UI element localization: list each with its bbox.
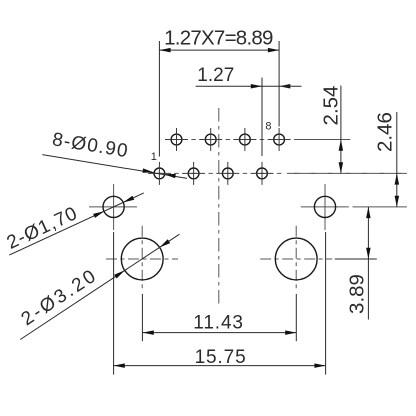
centerline small hole left vertical bbox=[113, 184, 115, 230]
centerline big hole right horizontal bbox=[260, 258, 332, 260]
extension line pin7 column bbox=[261, 78, 263, 157]
mounting hole dia 1.70 left bbox=[103, 196, 124, 217]
svg-text:1.27: 1.27 bbox=[197, 65, 234, 86]
pin hole 1 bbox=[148, 162, 171, 185]
pin hole 3 bbox=[182, 162, 205, 185]
mounting hole dia 1.70 right bbox=[314, 196, 335, 217]
centerline bottom pin row bbox=[157, 172, 407, 174]
pin hole 6 bbox=[233, 128, 256, 151]
dimension 3.89 bbox=[335, 207, 377, 320]
pin label 1 bbox=[151, 151, 157, 163]
dimension 2.46 bbox=[374, 112, 400, 207]
dimension 2.54 bbox=[319, 86, 343, 174]
svg-text:2.54: 2.54 bbox=[319, 86, 342, 126]
svg-text:1.27X7=8.89: 1.27X7=8.89 bbox=[164, 27, 273, 50]
extension line pin8 column bbox=[278, 41, 280, 127]
leader 2-dia1.70 to left small hole bbox=[4, 193, 144, 255]
centerline central vertical axis bbox=[218, 108, 220, 306]
pin label 8 bbox=[265, 121, 271, 133]
svg-text:15.75: 15.75 bbox=[195, 347, 247, 368]
svg-text:3.89: 3.89 bbox=[346, 274, 369, 314]
svg-text:11.43: 11.43 bbox=[193, 312, 244, 333]
leader 2-dia3.20 to left big hole bbox=[18, 234, 180, 339]
centerline big hole right vertical bbox=[295, 226, 297, 292]
mounting hole dia 3.20 left bbox=[121, 238, 163, 280]
dimension 1.27 bbox=[196, 65, 302, 89]
dimension 15.75 bbox=[114, 347, 326, 368]
extension line big hole right bbox=[295, 294, 297, 341]
centerline top pin row bbox=[174, 139, 350, 141]
pin hole 5 bbox=[216, 162, 239, 185]
dimension 11.43 bbox=[143, 312, 297, 335]
extension line small hole right bbox=[325, 232, 327, 375]
centerline small hole right vertical bbox=[324, 184, 326, 230]
pin hole 7 bbox=[251, 162, 274, 185]
extension line small hole left bbox=[113, 232, 115, 375]
pin hole 2 bbox=[165, 128, 188, 151]
centerline small hole row left arm bbox=[89, 206, 137, 208]
centerline small hole row right arm bbox=[301, 206, 407, 208]
svg-text:8: 8 bbox=[265, 121, 271, 133]
svg-text:2.46: 2.46 bbox=[374, 112, 397, 152]
extension line big hole left bbox=[141, 294, 143, 341]
centerline big hole left vertical bbox=[141, 226, 143, 292]
mounting hole dia 3.20 right bbox=[275, 238, 317, 280]
extension line pin1 column bbox=[158, 41, 160, 157]
pin hole 8 bbox=[268, 128, 291, 151]
svg-text:1: 1 bbox=[151, 151, 157, 163]
centerline big hole left horizontal bbox=[106, 258, 178, 260]
pin hole 4 bbox=[199, 128, 222, 151]
leader 8-dia0.90 to pin 1 bbox=[42, 129, 187, 178]
dimension 1.27X7=8.89 bbox=[159, 27, 279, 53]
